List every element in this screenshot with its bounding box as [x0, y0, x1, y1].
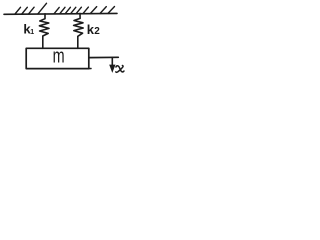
ceiling (fixed support) line	[4, 12, 117, 15]
label x	[116, 66, 124, 73]
svg-text:2: 2	[94, 26, 100, 37]
svg-text:1: 1	[30, 29, 34, 36]
ceiling hatch marks	[15, 3, 115, 14]
displacement arrowhead	[110, 65, 115, 72]
mass block bottom-right overshoot	[89, 68, 91, 70]
spring k2 (right spring)	[74, 13, 84, 48]
svg-text:m: m	[53, 44, 65, 67]
spring k1 (left spring)	[39, 14, 49, 49]
wire from mass to displacement reference	[89, 56, 118, 58]
mass m (block)	[26, 48, 89, 68]
displacement arrow stem	[111, 58, 113, 67]
